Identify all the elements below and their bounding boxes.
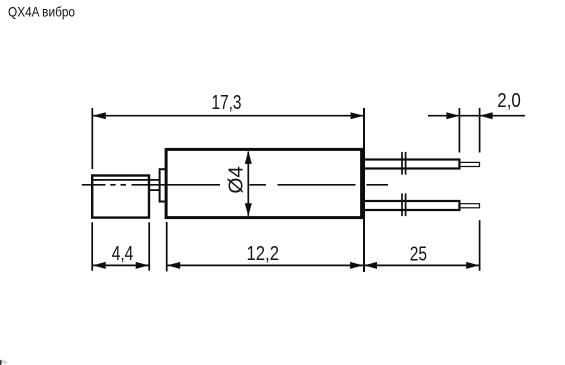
- lead wire top bare end: [459, 162, 479, 166]
- dimension 2,0 extension line left: [458, 108, 460, 153]
- dimension 4,4 line: [93, 264, 149, 266]
- arrowhead 2,0 right (points left): [480, 112, 493, 119]
- arrowhead 25 left: [364, 262, 377, 269]
- arrowhead 4,4 left: [93, 262, 106, 269]
- dimension 2,0 extension line right: [479, 108, 481, 153]
- weight/shaft upper line: [92, 179, 159, 181]
- arrowhead 12,2 left: [167, 262, 180, 269]
- lead wire top break mark: [401, 152, 403, 175]
- svg-text:25: 25: [410, 243, 427, 265]
- shaft bushing: [160, 169, 167, 201]
- diameter dimension line Ø4: [247, 152, 249, 216]
- arrowhead 2,0 left (points right): [446, 112, 459, 119]
- motor body: [166, 149, 362, 217]
- eccentric weight body: [92, 176, 149, 218]
- dimension 17,3 line: [93, 115, 364, 117]
- arrowhead 12,2 right: [350, 262, 363, 269]
- dimension 17,3 extension line left: [91, 108, 93, 169]
- lead wire top insulation: [362, 160, 459, 169]
- svg-text:2,0: 2,0: [497, 90, 521, 112]
- dimension 12,2 extension line left: [166, 222, 168, 272]
- arrowhead 17,3 right: [351, 112, 364, 119]
- arrowhead 25 right: [466, 262, 479, 269]
- svg-text:Ø4: Ø4: [225, 166, 247, 194]
- shaft lower line: [148, 189, 159, 191]
- arrowhead 4,4 right: [136, 262, 149, 269]
- svg-text:17,3: 17,3: [212, 92, 242, 114]
- dimension 25 line: [364, 264, 479, 266]
- arrowhead 17,3 left: [93, 112, 106, 119]
- dimension 4,4 extension line right: [148, 222, 150, 270]
- svg-text:QX4A вибро: QX4A вибро: [8, 5, 75, 20]
- dimension 12,2 line: [167, 264, 363, 266]
- lead wire bottom break mark: [401, 193, 403, 216]
- lead wire bottom bare end: [459, 204, 479, 208]
- corner artifact bottom-left: [0, 360, 8, 365]
- dimension 4,4 extension line left: [91, 222, 93, 270]
- dimension 17,3 extension line right: [363, 108, 365, 272]
- arrowhead Ø4 top: [245, 151, 252, 164]
- svg-text:4,4: 4,4: [112, 243, 134, 265]
- dimension 25 extension line right: [479, 220, 481, 271]
- lead wire bottom insulation: [362, 201, 459, 210]
- dimension 2,0 line: [428, 115, 525, 117]
- arrowhead Ø4 bottom: [245, 203, 252, 216]
- svg-text:12,2: 12,2: [247, 243, 280, 265]
- centerline: [82, 184, 388, 186]
